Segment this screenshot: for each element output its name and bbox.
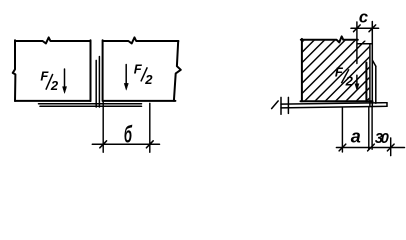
left block top edge with break mark	[15, 37, 91, 43]
hatched block (right figure) top edge with break mark	[301, 36, 358, 42]
svg-text:c: c	[359, 8, 368, 26]
dimension a/30 shared extension line 1	[368, 107, 370, 149]
dimension a left extension line	[341, 108, 343, 152]
base plate (right figure) top line	[281, 103, 387, 104]
svg-text:F: F	[335, 64, 344, 79]
svg-text:a: a	[351, 126, 361, 146]
dimension 30 right extension stub	[390, 138, 392, 156]
svg-text:F: F	[134, 61, 143, 76]
thin strip left line / dimension c right extension	[371, 22, 373, 107]
dimension c left extension line	[356, 22, 358, 64]
right block top edge with break mark	[104, 37, 179, 43]
base plate (right figure) bottom line	[281, 106, 387, 108]
right block left edge	[102, 40, 104, 101]
thin strip top slant	[372, 60, 376, 66]
dimension tick between a and 30	[368, 144, 375, 151]
label F/2 in right block	[134, 61, 154, 87]
hatched block right edge lower part	[365, 63, 367, 102]
force arrow left block F/2	[64, 69, 66, 88]
dimension b line	[92, 143, 159, 145]
svg-text:б: б	[124, 122, 133, 149]
dimension b tick right	[146, 141, 153, 148]
dimension b tick left	[100, 141, 107, 148]
right block right edge with break mark (slightly slanted)	[174, 41, 181, 101]
side plate top edge (right figure)	[357, 43, 371, 45]
middle thin plate right line	[98, 57, 100, 108]
hatched block bottom edge	[301, 100, 373, 102]
right block bottom edge	[104, 100, 176, 102]
dimension tick at a left	[339, 144, 346, 151]
dimension c tick left	[354, 25, 361, 32]
base plate left break vertical 1	[280, 97, 282, 114]
base plate bottom line (left figure)	[40, 105, 142, 107]
label F/2 in right figure block	[335, 64, 354, 88]
svg-text:2: 2	[345, 74, 354, 89]
force arrow right figure F/2	[356, 75, 358, 85]
svg-text:2: 2	[50, 78, 59, 93]
force arrow right block F/2	[125, 65, 127, 85]
dimension a/30 line	[336, 147, 404, 149]
base plate top line (left figure)	[39, 103, 142, 105]
dimension b right extension line	[149, 103, 151, 152]
base plate left break vertical 2	[287, 97, 289, 113]
label F/2 in left block	[40, 69, 59, 93]
dimension a/30 shared extension line 2	[371, 107, 373, 149]
side plate right edge	[369, 44, 371, 107]
dimension tick at 30 right	[387, 144, 394, 151]
left block bottom edge	[15, 100, 91, 102]
middle thin plate left line	[95, 60, 97, 107]
thin strip right line	[375, 66, 377, 103]
base plate right end cap	[386, 103, 388, 107]
dimension c tick right	[369, 25, 376, 32]
svg-text:F: F	[40, 69, 49, 84]
dimension b left extension line	[102, 102, 104, 152]
dimension c line	[351, 27, 379, 29]
base plate left break slash	[272, 101, 279, 109]
svg-text:2: 2	[144, 72, 153, 87]
left block left edge with break mark	[13, 40, 16, 101]
hatched block left edge	[301, 39, 303, 101]
left block right edge	[90, 40, 92, 101]
